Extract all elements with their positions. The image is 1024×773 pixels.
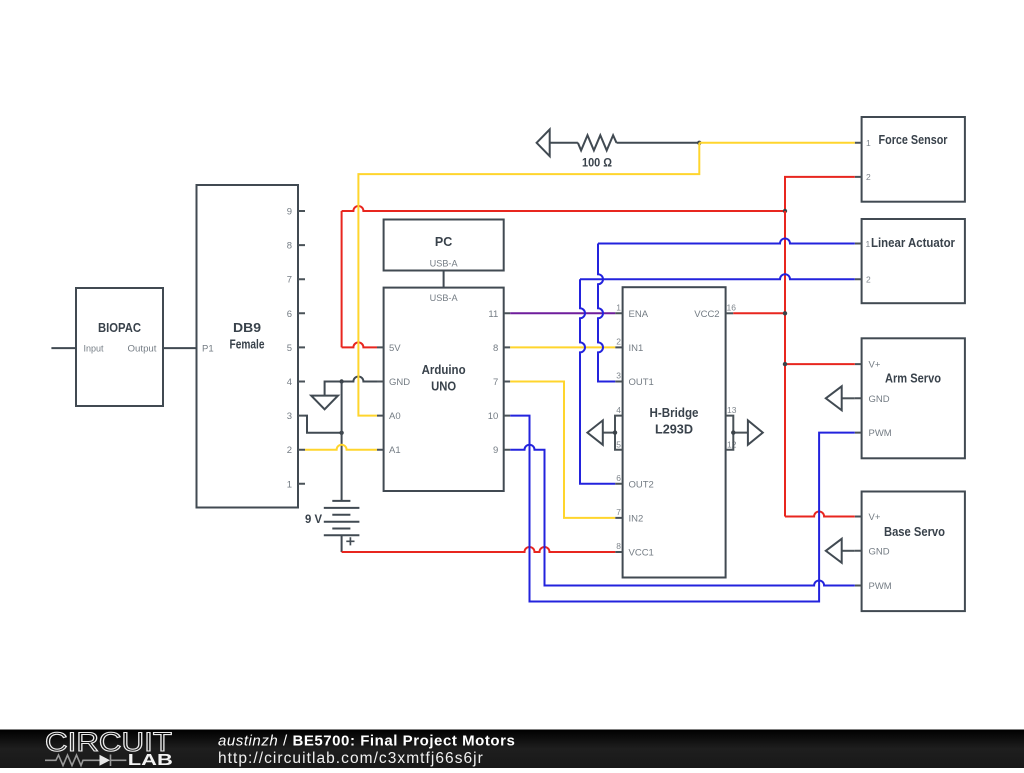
node: H-Bridge 13-12 junction (731, 430, 735, 434)
svg-text:LAB: LAB (128, 752, 173, 768)
wire: red to Base Servo V+ (hop over blue vertical) (785, 512, 855, 517)
svg-text:9: 9 (287, 207, 292, 218)
svg-text:11: 11 (488, 309, 498, 320)
wire: red 5V to node column (hop over yellow) (342, 342, 377, 347)
svg-text:1: 1 (866, 138, 871, 148)
svg-text:GND: GND (869, 546, 890, 557)
svg-text:9: 9 (493, 445, 498, 456)
svg-text:Input: Input (84, 344, 104, 355)
wire: yellow Arduino pin8 to IN1 (510, 346, 615, 348)
wire: yellow DB9 pin2 to A1 (hop over black vertical) (305, 445, 377, 450)
Arduino pin stubs (377, 313, 510, 449)
svg-text:5: 5 (616, 440, 621, 450)
connector P1 DB9 Female box (197, 185, 299, 508)
Force Sensor box (862, 117, 965, 202)
wire: blue Linear Actuator pin2 row (hop over red vertical) (580, 274, 855, 279)
svg-text:VCC2: VCC2 (694, 309, 719, 320)
wire: red 9V+ to VCC1 (hops over blue verticals) (342, 547, 616, 552)
H-Bridge pins 13,12 bracket (726, 416, 748, 450)
wire: red vertical at DB9 pin9 column (341, 211, 343, 347)
H-Bridge pins 4,5 bracket (603, 416, 623, 450)
wire: DB9 pin3 jog to GND vertical (305, 416, 342, 433)
wire: yellow node down and across to A0 (358, 143, 699, 416)
node: resistor / force sensor junction (697, 141, 701, 145)
svg-text:PWM: PWM (869, 428, 892, 439)
svg-text:DB9: DB9 (233, 321, 261, 335)
wire: Arduino GND to vertical (with hop over yellow) (342, 377, 377, 382)
svg-text:Arm Servo: Arm Servo (885, 372, 941, 386)
Arm Servo pin stubs (855, 364, 862, 433)
svg-text:Force Sensor: Force Sensor (879, 133, 948, 147)
svg-text:Linear Actuator: Linear Actuator (871, 236, 955, 250)
svg-text:L293D: L293D (655, 423, 693, 437)
wire: blue Linear Actuator pin1 row (hop over red vertical) (598, 239, 855, 244)
svg-text:7: 7 (493, 377, 498, 388)
node: red junction VCC2 row (783, 311, 787, 315)
wire: red VCC2 to vertical (733, 312, 785, 314)
svg-text:8: 8 (493, 343, 498, 354)
wire: blue Arduino pin10 to Arm Servo PWM (510, 416, 855, 602)
svg-text:2: 2 (616, 337, 621, 347)
wire: BIOPAC input stub (51, 347, 76, 349)
svg-text:BIOPAC: BIOPAC (98, 321, 141, 335)
wire: red to Force Sensor pin2 (785, 177, 855, 211)
svg-text:A1: A1 (389, 445, 401, 456)
Arduino UNO box (384, 288, 504, 491)
svg-text:6: 6 (287, 309, 292, 320)
wire: flag to resistor (550, 142, 578, 144)
arrow: input flag left of resistor R1 (537, 129, 550, 156)
svg-text:4: 4 (287, 377, 292, 388)
svg-text:1: 1 (287, 479, 292, 490)
footer bar (0, 730, 1024, 769)
wire: GND vertical down to battery (341, 382, 343, 501)
node: pin3 junction (339, 431, 343, 435)
wire: battery bottom terminal (341, 535, 343, 552)
BIOPAC box U? (76, 288, 163, 406)
svg-text:GND: GND (389, 377, 410, 388)
wire: resistor to node (617, 142, 700, 144)
svg-text:V+: V+ (869, 360, 881, 371)
svg-text:3: 3 (616, 371, 621, 381)
svg-text:9 V: 9 V (305, 514, 322, 526)
arrow at H-Bridge pins 4,5 (587, 420, 602, 444)
CircuitLab logo squiggle resistor and diode (45, 755, 126, 767)
wire: PC USB-A to Arduino USB-A (443, 271, 445, 288)
svg-text:USB-A: USB-A (430, 293, 459, 304)
H-Bridge L293D box U? (623, 287, 726, 577)
svg-text:1: 1 (616, 303, 621, 313)
svg-text:UNO: UNO (431, 380, 456, 394)
node: red junction Arm V+ row (783, 362, 787, 366)
svg-text:12: 12 (727, 440, 737, 450)
svg-text:http://circuitlab.com/c3xmtfj6: http://circuitlab.com/c3xmtfj66s6jr (218, 750, 484, 767)
Linear Actuator pin stubs (855, 244, 862, 280)
svg-text:PWM: PWM (869, 581, 892, 592)
svg-text:5V: 5V (389, 343, 401, 354)
svg-text:H-Bridge: H-Bridge (650, 406, 699, 420)
svg-text:8: 8 (616, 541, 621, 551)
svg-text:4: 4 (616, 405, 621, 415)
svg-text:GND: GND (869, 394, 890, 405)
battery plus sign (346, 537, 354, 545)
svg-text:V+: V+ (869, 512, 881, 523)
svg-text:16: 16 (727, 303, 737, 313)
svg-text:VCC1: VCC1 (629, 548, 654, 559)
node: red junction pin9 row (783, 209, 787, 213)
svg-text:13: 13 (727, 405, 737, 415)
Arm Servo box (862, 338, 965, 458)
wire: blue vertical to OUT2 (hops over purple, yellow) (580, 279, 615, 484)
wire: yellow node to Force Sensor pin1 (699, 142, 855, 144)
H-Bridge pin numbers (616, 303, 736, 552)
svg-text:8: 8 (287, 241, 292, 252)
svg-text:2: 2 (287, 445, 292, 456)
Base Servo box (862, 492, 965, 612)
wire: blue vertical to OUT1 (hops over blue, purple, yellow) (598, 244, 615, 382)
wire: BIOPAC output to DB9 P1 (163, 347, 197, 349)
DB9 pin stubs 9..1 (298, 211, 305, 484)
wire: blue Arduino pin9 to Base Servo PWM (hops) (510, 445, 855, 586)
svg-text:IN1: IN1 (629, 343, 644, 354)
Force Sensor pin stubs (855, 143, 862, 177)
svg-text:USB-A: USB-A (430, 259, 459, 270)
svg-text:6: 6 (616, 473, 621, 483)
arrow at H-Bridge pins 13,12 (748, 420, 763, 444)
svg-text:7: 7 (616, 507, 621, 517)
svg-text:OUT1: OUT1 (629, 377, 654, 388)
wire + arrow: Base Servo GND (842, 550, 855, 552)
svg-text:austinzh / BE5700: Final Proje: austinzh / BE5700: Final Project Motors (218, 733, 515, 750)
Linear Actuator box (862, 219, 965, 303)
svg-text:Output: Output (128, 344, 157, 355)
wire: purple Arduino pin11 to ENA (510, 312, 615, 314)
svg-text:ENA: ENA (629, 309, 649, 320)
svg-text:3: 3 (287, 411, 292, 422)
PC box (384, 220, 504, 271)
H-Bridge VCC2 stub (726, 312, 734, 314)
resistor R1 100 Ohm (578, 135, 617, 150)
svg-text:P1: P1 (202, 344, 214, 355)
svg-text:Arduino: Arduino (422, 363, 466, 377)
wire + arrow: Arm Servo GND (842, 397, 855, 399)
wire: red to Arm Servo V+ (785, 363, 855, 365)
node: H-Bridge 4-5 junction (613, 430, 617, 434)
svg-text:1: 1 (866, 239, 871, 249)
wire: yellow Arduino pin7 to IN2 (510, 382, 615, 518)
H-Bridge pin stubs left (615, 313, 622, 552)
battery V1 9V (324, 501, 360, 535)
svg-text:IN2: IN2 (629, 513, 644, 524)
node: GND junction (339, 379, 343, 383)
svg-text:7: 7 (287, 275, 292, 286)
svg-text:Base Servo: Base Servo (884, 525, 945, 539)
svg-text:2: 2 (866, 172, 871, 182)
svg-text:OUT2: OUT2 (629, 479, 654, 490)
svg-text:PC: PC (435, 235, 452, 249)
svg-text:Female: Female (230, 338, 265, 352)
ground symbol (311, 382, 341, 410)
svg-text:5: 5 (287, 343, 292, 354)
svg-text:10: 10 (488, 411, 499, 422)
svg-text:2: 2 (866, 275, 871, 285)
svg-text:100 Ω: 100 Ω (582, 158, 612, 170)
wire: red top horizontal pin9 row (hop over yellow) (342, 206, 785, 211)
wire: red main vertical (784, 211, 786, 517)
svg-text:A0: A0 (389, 411, 401, 422)
Base Servo pin stubs (855, 517, 862, 586)
